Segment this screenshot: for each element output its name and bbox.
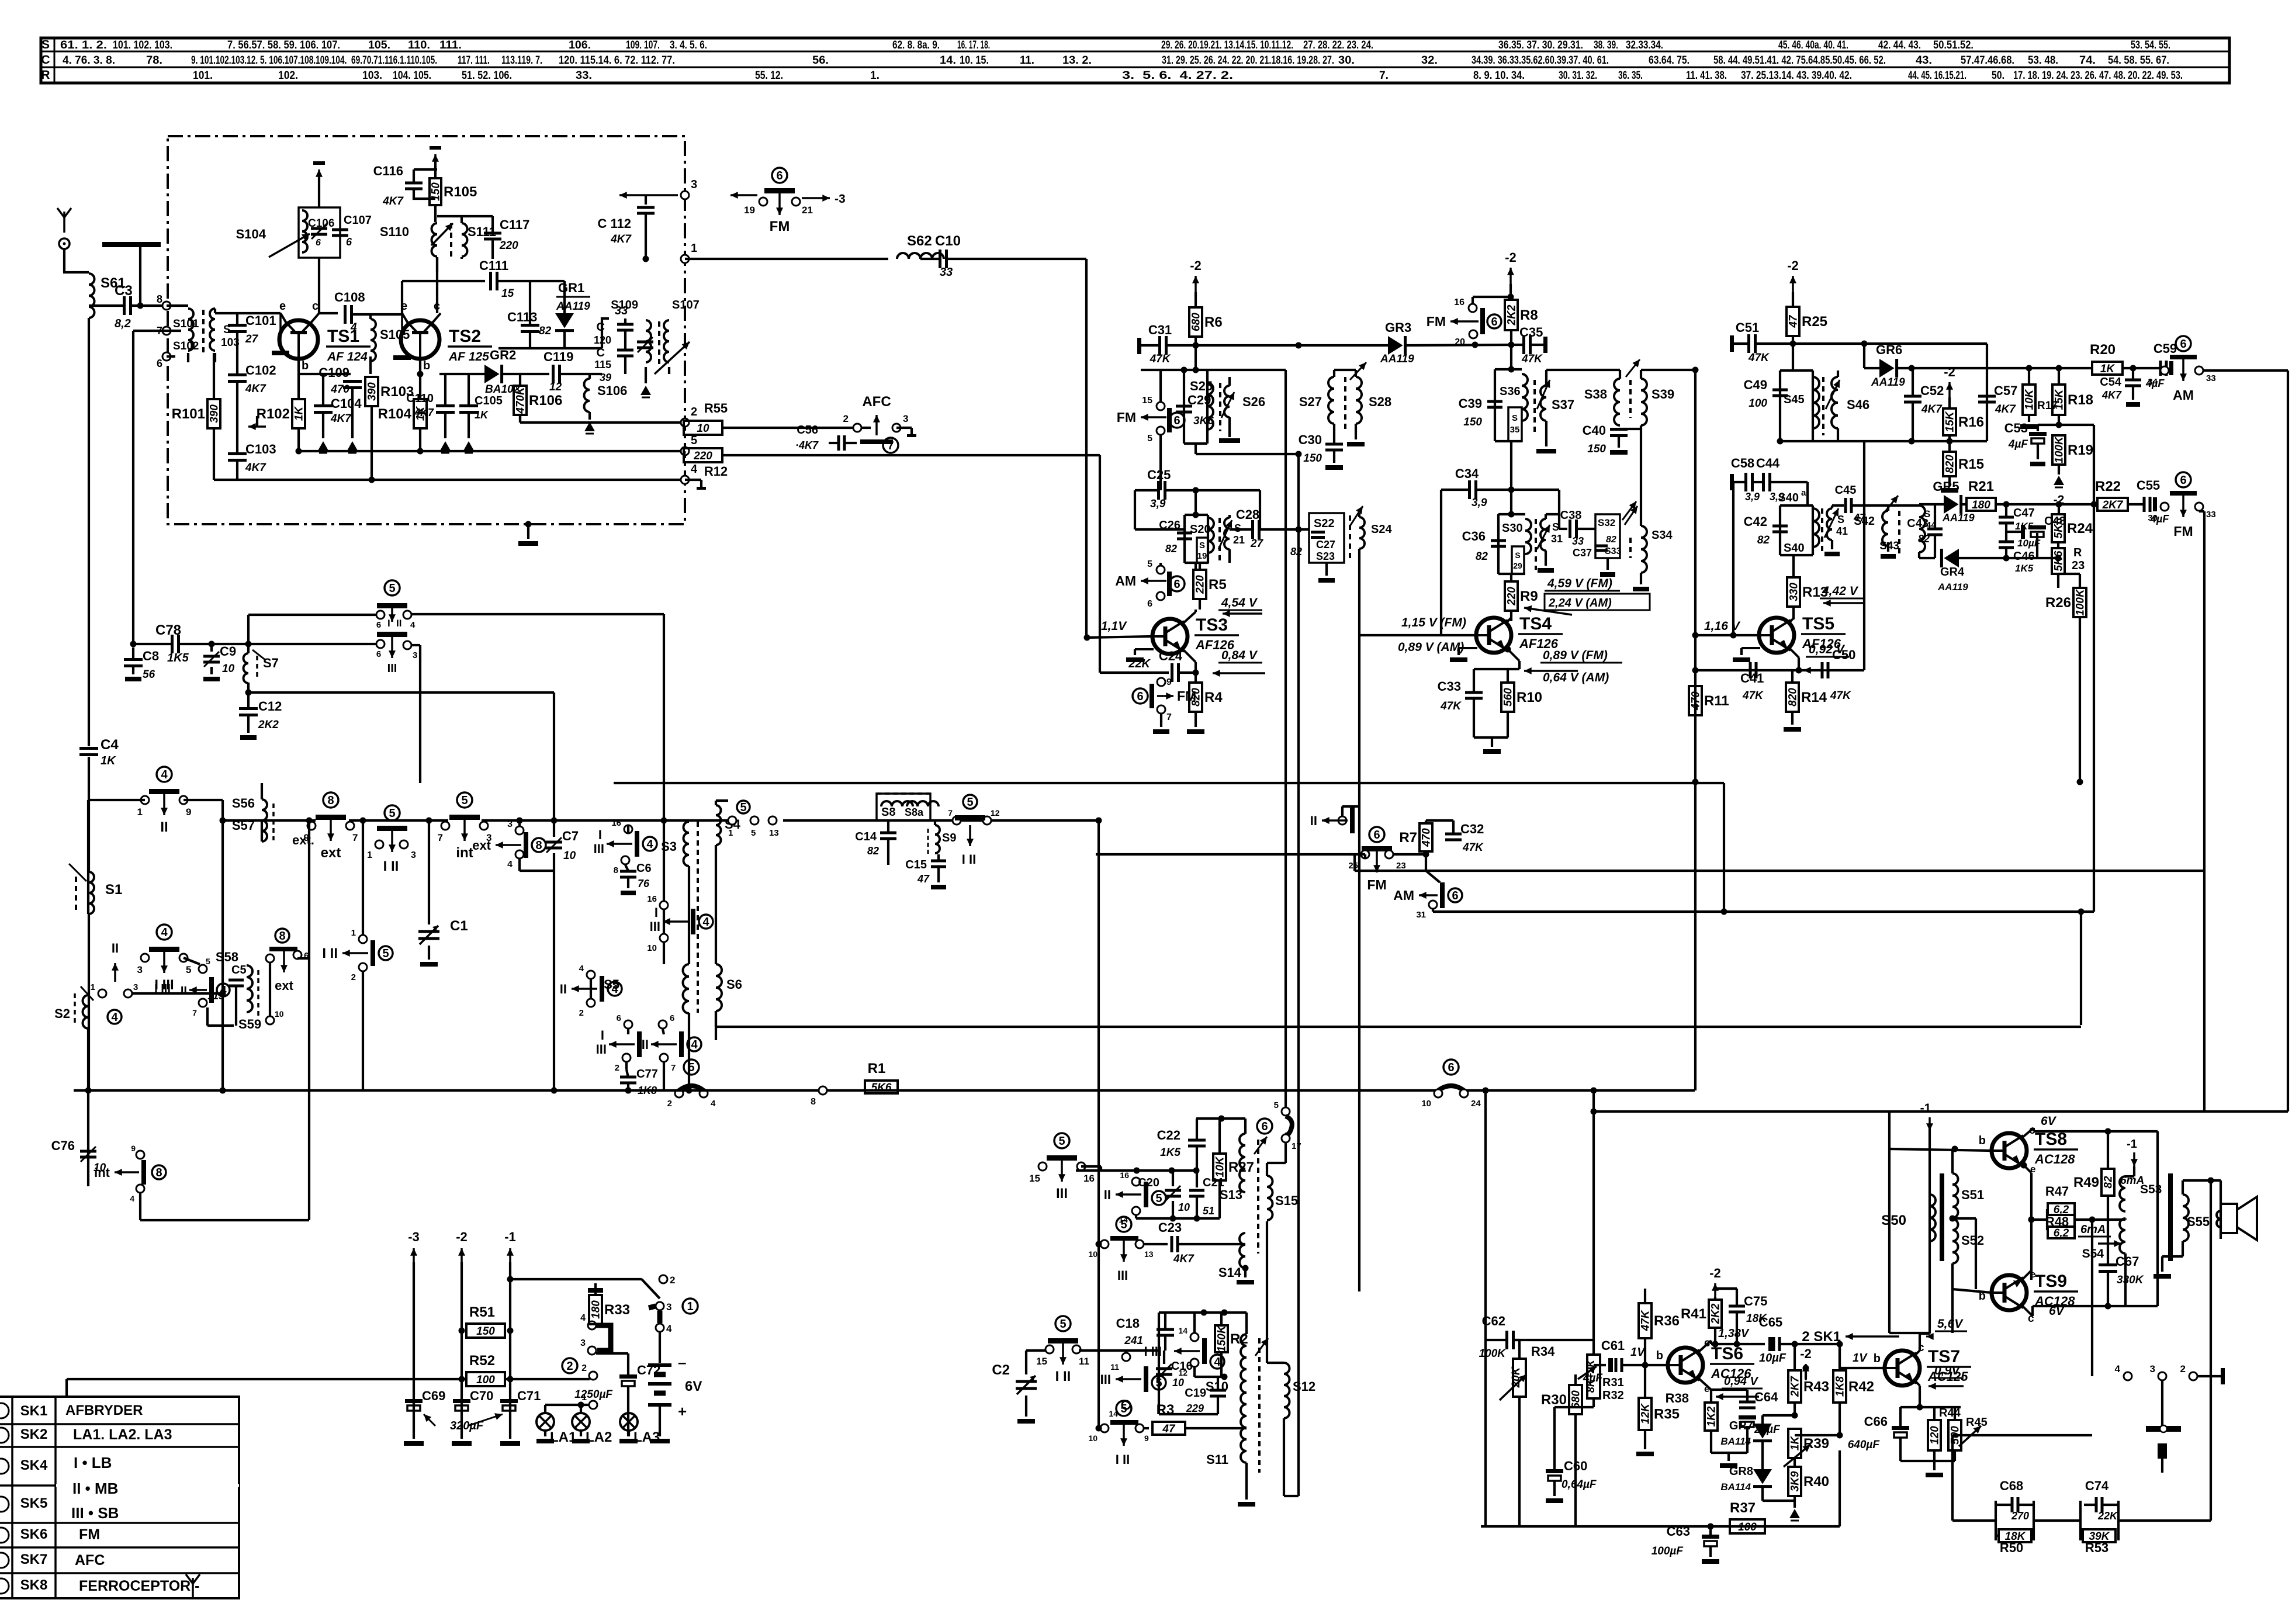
svg-text:11: 11: [1110, 1362, 1119, 1372]
svg-text:10K: 10K: [1214, 1156, 1227, 1177]
svg-text:3. 5. 6. 4. 27. 2.: 3. 5. 6. 4. 27. 2.: [1122, 70, 1233, 82]
svg-text:5K6: 5K6: [2053, 518, 2065, 538]
svg-text:C53: C53: [2004, 421, 2028, 435]
svg-text:C67: C67: [2116, 1254, 2139, 1269]
svg-text:C107: C107: [344, 214, 372, 227]
svg-text:II: II: [160, 819, 168, 835]
svg-text:8: 8: [157, 293, 162, 305]
svg-text:22K: 22K: [2097, 1510, 2118, 1522]
svg-text:33: 33: [1572, 535, 1584, 547]
svg-text:R43: R43: [1803, 1379, 1829, 1395]
svg-text:S40: S40: [1784, 542, 1805, 555]
svg-text:3K6: 3K6: [1193, 415, 1214, 427]
svg-text:4µF: 4µF: [2008, 438, 2029, 451]
svg-text:C70: C70: [470, 1388, 493, 1403]
svg-text:AA119: AA119: [1871, 376, 1905, 389]
svg-text:S8: S8: [881, 806, 895, 819]
svg-text:82: 82: [1165, 543, 1177, 555]
svg-text:4K7: 4K7: [1173, 1253, 1195, 1265]
svg-text:S30: S30: [1502, 522, 1523, 535]
svg-text:GR5: GR5: [1933, 479, 1959, 494]
svg-text:C68: C68: [2000, 1478, 2023, 1493]
svg-text:GR1: GR1: [558, 281, 584, 295]
svg-text:9: 9: [186, 806, 191, 818]
svg-text:R44: R44: [1939, 1407, 1961, 1419]
svg-text:6: 6: [157, 358, 162, 369]
svg-text:47: 47: [1162, 1423, 1176, 1435]
svg-text:3,9: 3,9: [1472, 497, 1487, 509]
svg-text:C105: C105: [475, 394, 503, 407]
svg-text:12: 12: [1178, 1368, 1187, 1377]
svg-text:C78: C78: [155, 622, 181, 638]
svg-text:II: II: [1310, 813, 1317, 828]
svg-text:1K2: 1K2: [1706, 1406, 1718, 1426]
svg-text:C55: C55: [2137, 478, 2160, 493]
svg-text:53. 48.: 53. 48.: [2028, 54, 2058, 67]
svg-text:39: 39: [600, 372, 611, 383]
svg-text:4,59 V (FM): 4,59 V (FM): [1547, 577, 1612, 590]
svg-text:4: 4: [691, 1038, 698, 1051]
svg-text:5: 5: [1147, 559, 1152, 569]
svg-text:R105: R105: [444, 184, 477, 200]
svg-text:1250µF: 1250µF: [574, 1388, 613, 1401]
svg-text:C2: C2: [992, 1362, 1010, 1378]
svg-text:AA119: AA119: [1942, 512, 1975, 524]
svg-text:-2: -2: [1709, 1266, 1721, 1280]
svg-text:16: 16: [1083, 1173, 1095, 1184]
svg-text:C20: C20: [1138, 1176, 1159, 1189]
svg-text:e: e: [1704, 1383, 1709, 1394]
svg-text:6: 6: [1173, 414, 1180, 427]
svg-text:C39: C39: [1459, 396, 1482, 411]
svg-text:7: 7: [1166, 712, 1172, 722]
svg-text:R40: R40: [1803, 1474, 1829, 1490]
svg-text:5K6: 5K6: [871, 1082, 892, 1094]
svg-text:C43: C43: [1907, 517, 1929, 530]
svg-text:2: 2: [843, 413, 849, 424]
svg-text:R25: R25: [1802, 314, 1827, 330]
svg-text:S46: S46: [1847, 397, 1869, 412]
svg-text:6: 6: [1491, 316, 1497, 328]
svg-text:1K: 1K: [293, 406, 306, 421]
svg-text:150: 150: [1463, 416, 1482, 428]
svg-text:102.: 102.: [278, 70, 298, 82]
svg-text:82: 82: [539, 325, 552, 337]
svg-text:-2: -2: [1800, 1346, 1812, 1361]
svg-text:390: 390: [209, 404, 221, 423]
svg-text:6mA: 6mA: [2080, 1223, 2106, 1236]
svg-text:47K: 47K: [1742, 690, 1764, 702]
svg-text:C60: C60: [1564, 1459, 1587, 1473]
svg-text:330K: 330K: [2117, 1274, 2144, 1286]
svg-text:19: 19: [1197, 551, 1207, 561]
svg-text:C58: C58: [1731, 456, 1754, 470]
svg-text:R52: R52: [469, 1353, 495, 1369]
svg-text:C41: C41: [1740, 671, 1764, 685]
svg-text:C57: C57: [1994, 383, 2017, 398]
svg-text:220: 220: [693, 450, 712, 462]
svg-text:a: a: [1801, 488, 1806, 498]
svg-text:S15: S15: [1275, 1193, 1298, 1208]
svg-text:C33: C33: [1438, 679, 1461, 694]
svg-text:S54: S54: [2082, 1247, 2104, 1261]
svg-text:b: b: [1979, 1134, 1986, 1147]
svg-text:2,24 V (AM): 2,24 V (AM): [1548, 597, 1612, 610]
svg-text:7: 7: [438, 832, 443, 843]
svg-text:53. 54. 55.: 53. 54. 55.: [2131, 39, 2170, 51]
svg-text:S7: S7: [263, 656, 279, 670]
svg-text:100: 100: [1738, 1521, 1757, 1533]
svg-text:0,89 V (FM): 0,89 V (FM): [1543, 649, 1608, 662]
svg-text:6: 6: [1173, 578, 1180, 591]
svg-text:I: I: [598, 827, 602, 842]
svg-text:2: 2: [579, 1008, 584, 1018]
svg-text:-1: -1: [1920, 1102, 1931, 1115]
svg-text:C103: C103: [245, 442, 276, 456]
svg-text:47K: 47K: [1640, 1310, 1652, 1331]
svg-text:229: 229: [1186, 1403, 1204, 1414]
svg-text:4K7: 4K7: [2101, 389, 2122, 401]
svg-text:R: R: [41, 68, 50, 82]
svg-text:120: 120: [1929, 1426, 1941, 1445]
svg-text:SK8: SK8: [20, 1577, 48, 1593]
svg-text:1V: 1V: [1630, 1346, 1646, 1359]
svg-text:4,42 V: 4,42 V: [1822, 584, 1859, 598]
svg-text:100K: 100K: [2054, 436, 2066, 463]
svg-text:+: +: [678, 1403, 687, 1420]
svg-text:I II: I II: [383, 858, 399, 874]
svg-text:C74: C74: [2085, 1478, 2109, 1493]
svg-text:7: 7: [887, 439, 894, 452]
svg-text:5: 5: [1060, 1318, 1066, 1331]
svg-text:120: 120: [594, 334, 611, 346]
svg-text:c: c: [312, 300, 318, 313]
svg-text:4: 4: [410, 620, 416, 630]
svg-text:1V: 1V: [1853, 1352, 1868, 1365]
svg-text:III: III: [1100, 1372, 1111, 1387]
svg-text:-1: -1: [2127, 1138, 2137, 1151]
svg-text:33: 33: [940, 266, 953, 279]
svg-text:2: 2: [691, 406, 697, 418]
svg-text:10: 10: [647, 943, 657, 953]
svg-text:S20: S20: [1190, 523, 1211, 536]
svg-text:C9: C9: [220, 644, 236, 659]
svg-text:R10: R10: [1517, 690, 1542, 705]
svg-text:C59: C59: [2153, 341, 2177, 356]
svg-text:S107: S107: [672, 299, 700, 311]
svg-text:640µF: 640µF: [1848, 1439, 1881, 1451]
svg-text:S28: S28: [1369, 394, 1391, 409]
svg-text:C117: C117: [500, 217, 529, 232]
svg-text:4,54 V: 4,54 V: [1221, 596, 1258, 610]
svg-text:5: 5: [1155, 1192, 1162, 1205]
svg-text:ext: ext: [321, 845, 341, 861]
svg-text:1K: 1K: [2100, 363, 2116, 375]
svg-text:b: b: [302, 359, 309, 372]
svg-text:I III: I III: [154, 982, 171, 995]
svg-text:33: 33: [2206, 373, 2216, 383]
svg-text:15: 15: [501, 288, 514, 300]
svg-text:3: 3: [507, 819, 513, 829]
svg-text:4: 4: [507, 860, 513, 870]
svg-text:AA119: AA119: [556, 300, 590, 313]
svg-text:82: 82: [1290, 546, 1302, 558]
svg-text:C75: C75: [1744, 1294, 1767, 1308]
svg-text:R48: R48: [2045, 1214, 2069, 1229]
svg-text:47K: 47K: [1150, 353, 1171, 365]
svg-text:19: 19: [744, 205, 755, 216]
svg-text:10: 10: [563, 850, 576, 862]
svg-text:R41: R41: [1681, 1306, 1706, 1322]
svg-text:23: 23: [1396, 861, 1406, 871]
svg-text:47K: 47K: [1440, 700, 1462, 712]
svg-text:14.: 14.: [940, 54, 956, 67]
svg-text:R37: R37: [1730, 1500, 1756, 1516]
svg-text:S8a: S8a: [905, 806, 924, 818]
svg-text:C77: C77: [636, 1068, 658, 1081]
svg-text:15: 15: [1036, 1356, 1047, 1367]
svg-text:4: 4: [161, 926, 168, 939]
svg-text:-2: -2: [1505, 250, 1517, 265]
svg-text:1: 1: [351, 928, 356, 938]
svg-text:7: 7: [352, 832, 358, 843]
svg-text:101. 102. 103.: 101. 102. 103.: [113, 39, 172, 51]
svg-text:C51: C51: [1736, 320, 1759, 335]
svg-text:6: 6: [670, 1013, 674, 1023]
svg-text:S51: S51: [1961, 1187, 1984, 1202]
svg-text:S24: S24: [1371, 523, 1392, 536]
svg-text:4: 4: [111, 1011, 118, 1024]
svg-text:BA114: BA114: [1720, 1481, 1751, 1493]
svg-text:R4: R4: [1204, 690, 1223, 705]
svg-text:4: 4: [702, 916, 709, 929]
svg-text:4µF: 4µF: [1583, 1372, 1604, 1384]
svg-text:100µF: 100µF: [1652, 1545, 1684, 1557]
svg-text:4: 4: [2115, 1363, 2121, 1374]
svg-text:S39: S39: [1652, 387, 1674, 401]
svg-text:S10: S10: [1206, 1379, 1228, 1394]
svg-text:TS4: TS4: [1519, 614, 1552, 633]
svg-text:4: 4: [711, 1099, 716, 1109]
svg-text:1K: 1K: [475, 409, 489, 421]
svg-text:II: II: [642, 1037, 649, 1052]
svg-text:–: –: [678, 1353, 686, 1371]
svg-text:5: 5: [1058, 1135, 1065, 1148]
svg-text:S58: S58: [216, 950, 238, 964]
svg-text:4: 4: [579, 964, 584, 974]
svg-text:2: 2: [2180, 1363, 2186, 1374]
svg-text:C63: C63: [1667, 1524, 1690, 1539]
svg-text:150: 150: [1303, 452, 1322, 465]
svg-text:AFC: AFC: [862, 394, 891, 410]
svg-text:6V: 6V: [685, 1379, 702, 1394]
svg-text:S55: S55: [2187, 1214, 2210, 1229]
svg-text:R19: R19: [2068, 442, 2093, 458]
svg-text:III: III: [596, 1042, 607, 1057]
svg-text:R51: R51: [469, 1304, 495, 1320]
svg-text:16: 16: [611, 818, 621, 828]
svg-text:C1: C1: [450, 918, 468, 934]
svg-text:C24: C24: [1159, 649, 1183, 663]
svg-text:100K: 100K: [2075, 588, 2087, 616]
svg-text:82: 82: [1606, 535, 1616, 545]
svg-text:R5: R5: [1209, 577, 1227, 593]
svg-text:470K: 470K: [515, 386, 527, 414]
svg-text:4K7: 4K7: [245, 462, 266, 474]
svg-text:S43: S43: [1879, 540, 1899, 552]
svg-text:36.35. 37. 30. 29.31.: 36.35. 37. 30. 29.31.: [1498, 39, 1583, 51]
svg-text:II: II: [396, 618, 401, 629]
svg-text:R14: R14: [1801, 690, 1827, 705]
svg-text:82: 82: [1918, 533, 1930, 545]
svg-text:S25: S25: [1190, 379, 1213, 393]
svg-text:45. 46. 40a. 40. 41.: 45. 46. 40a. 40. 41.: [1778, 39, 1848, 51]
svg-text:C27: C27: [1316, 539, 1335, 550]
svg-text:390: 390: [366, 382, 379, 401]
svg-text:27: 27: [245, 333, 259, 345]
svg-text:R34: R34: [1531, 1344, 1555, 1359]
svg-text:8: 8: [327, 794, 334, 807]
svg-text:44. 45. 16.15.21.: 44. 45. 16.15.21.: [1908, 70, 1966, 82]
svg-text:74.: 74.: [2079, 54, 2096, 67]
svg-text:3: 3: [903, 413, 908, 424]
svg-text:S109: S109: [611, 299, 638, 311]
svg-text:38. 39.: 38. 39.: [1594, 39, 1618, 51]
svg-text:0,89 V (AM): 0,89 V (AM): [1398, 640, 1464, 654]
svg-text:R11: R11: [1704, 693, 1729, 709]
svg-text:100: 100: [1749, 397, 1767, 410]
svg-text:C56: C56: [797, 424, 818, 437]
svg-text:R: R: [2073, 546, 2082, 559]
svg-text:GR2: GR2: [490, 348, 516, 362]
svg-text:LA1. LA2. LA3: LA1. LA2. LA3: [73, 1426, 172, 1443]
svg-text:ext.: ext.: [292, 833, 314, 847]
svg-text:R15: R15: [1958, 456, 1984, 472]
svg-text:AF 125: AF 125: [448, 350, 489, 363]
svg-text:5: 5: [740, 801, 746, 814]
svg-text:10K: 10K: [2024, 389, 2036, 410]
svg-text:7: 7: [192, 1008, 197, 1017]
svg-text:2: 2: [615, 1063, 619, 1073]
svg-text:2: 2: [351, 972, 356, 982]
svg-text:3K9: 3K9: [1789, 1471, 1802, 1491]
svg-text:5: 5: [967, 796, 973, 809]
svg-text:S57: S57: [232, 818, 255, 833]
svg-text:AA119: AA119: [1380, 353, 1414, 365]
svg-text:R9: R9: [1520, 588, 1538, 604]
svg-text:S2: S2: [54, 1006, 70, 1021]
svg-text:5,6V: 5,6V: [1937, 1317, 1964, 1331]
svg-text:6: 6: [376, 620, 381, 630]
svg-text:41: 41: [1836, 525, 1848, 537]
svg-text:4K7: 4K7: [414, 407, 434, 418]
svg-text:S: S: [1515, 550, 1520, 560]
svg-text:4: 4: [1214, 1356, 1221, 1369]
svg-text:S13: S13: [1220, 1187, 1242, 1202]
svg-text:1,15 V (FM): 1,15 V (FM): [1401, 616, 1466, 629]
svg-text:10: 10: [1178, 1201, 1190, 1213]
svg-text:S: S: [41, 38, 50, 51]
svg-text:S62: S62: [907, 233, 932, 249]
svg-text:5: 5: [1274, 1100, 1279, 1110]
svg-text:SK5: SK5: [20, 1495, 48, 1511]
svg-text:S40: S40: [1778, 491, 1799, 504]
svg-text:63.64. 75.: 63.64. 75.: [1649, 54, 1689, 67]
svg-text:4: 4: [130, 1194, 134, 1203]
svg-text:AF 124: AF 124: [327, 350, 368, 363]
svg-text:11: 11: [1079, 1356, 1089, 1367]
svg-text:0,94 V: 0,94 V: [1724, 1375, 1758, 1388]
svg-text:5: 5: [382, 947, 389, 960]
svg-text:b: b: [423, 359, 430, 372]
svg-text:I II: I II: [1116, 1452, 1130, 1467]
svg-text:9. 101.102.103.12. 5. 106.107.: 9. 101.102.103.12. 5. 106.107.108.109.10…: [191, 54, 437, 67]
svg-text:7: 7: [671, 1063, 676, 1073]
svg-text:S6: S6: [726, 977, 742, 992]
svg-text:6: 6: [316, 238, 321, 248]
svg-text:6: 6: [1448, 1061, 1454, 1074]
svg-text:C71: C71: [517, 1388, 541, 1403]
svg-text:470: 470: [1690, 691, 1702, 711]
svg-text:C25: C25: [1147, 468, 1171, 482]
svg-text:III: III: [650, 919, 660, 934]
svg-text:1: 1: [687, 1300, 693, 1313]
svg-text:150: 150: [476, 1325, 495, 1338]
svg-text:31: 31: [1551, 533, 1563, 545]
svg-text:4: 4: [611, 983, 618, 996]
svg-text:R42: R42: [1848, 1379, 1874, 1395]
svg-text:C116: C116: [373, 164, 403, 178]
svg-text:37. 25.13.14. 43. 39.40. 42.: 37. 25.13.14. 43. 39.40. 42.: [1741, 70, 1852, 82]
svg-text:FM: FM: [1427, 314, 1446, 329]
svg-text:ext: ext: [472, 838, 491, 853]
svg-text:GR3: GR3: [1385, 320, 1411, 335]
svg-text:SK2: SK2: [20, 1426, 48, 1442]
svg-text:TS3: TS3: [1196, 615, 1228, 635]
svg-text:105.: 105.: [368, 39, 390, 51]
svg-text:27. 28. 22. 23. 24.: 27. 28. 22. 23. 24.: [1303, 39, 1373, 51]
svg-text:S23: S23: [1316, 550, 1335, 562]
svg-text:4K7: 4K7: [330, 413, 352, 425]
svg-text:R101: R101: [172, 406, 205, 422]
svg-text:C49: C49: [1744, 378, 1767, 392]
svg-text:58. 44. 49.51.41. 42. 75.64.85: 58. 44. 49.51.41. 42. 75.64.85.50.45. 66…: [1713, 54, 1886, 67]
svg-text:34.39. 36.33.35.62.60.39.37. 4: 34.39. 36.33.35.62.60.39.37. 40. 61.: [1472, 54, 1609, 67]
svg-text:2: 2: [581, 1363, 587, 1373]
svg-text:I: I: [387, 618, 390, 629]
svg-text:8: 8: [811, 1097, 816, 1107]
svg-text:1: 1: [91, 982, 95, 992]
svg-text:I: I: [601, 1028, 604, 1043]
svg-text:3: 3: [137, 964, 143, 975]
svg-text:10: 10: [275, 1009, 284, 1019]
svg-text:110.: 110.: [408, 39, 430, 51]
svg-text:R31: R31: [1602, 1376, 1624, 1389]
svg-text:C8: C8: [143, 649, 159, 663]
svg-text:8: 8: [279, 930, 285, 943]
svg-text:12K: 12K: [1640, 1403, 1652, 1424]
svg-text:S: S: [1512, 413, 1518, 423]
svg-text:I II: I II: [1097, 1187, 1111, 1202]
svg-text:R24: R24: [2067, 521, 2093, 536]
svg-text:-3: -3: [835, 192, 846, 206]
svg-text:C38: C38: [1560, 509, 1582, 522]
svg-text:C69: C69: [422, 1388, 445, 1403]
svg-text:1.: 1.: [870, 70, 880, 82]
svg-text:3: 3: [413, 650, 417, 660]
svg-text:C: C: [41, 53, 50, 67]
svg-text:10: 10: [1088, 1433, 1097, 1443]
